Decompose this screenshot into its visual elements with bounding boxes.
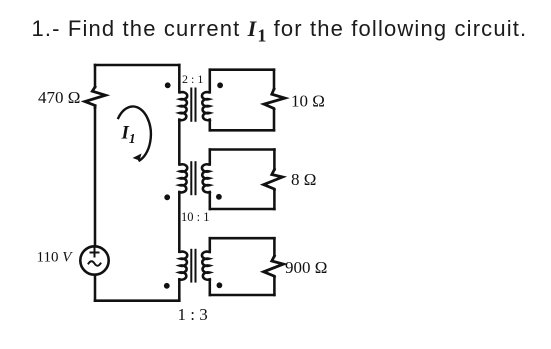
wire: middle bus T3 bottom lead [178,279,181,300]
wire: loop2 bottom [210,208,275,211]
wire: loop2 secondary top lead [209,150,212,165]
svg-text:8 Ω: 8 Ω [291,170,316,189]
polarity dot T3 right [217,282,223,288]
svg-text:10 : 1: 10 : 1 [181,210,209,224]
polarity dot T3 left [164,283,170,289]
svg-text:1 : 3: 1 : 3 [178,305,208,324]
wire: top of left loop [95,64,179,67]
wire: left side bottom segment [94,275,97,301]
resistor 10Ω (zigzag) [264,89,285,109]
wire: loop3 right top segment [273,238,276,256]
svg-text:2 : 1: 2 : 1 [182,72,203,86]
polarity dot T1 left [165,82,171,88]
transformer 2:1 secondary winding [202,92,210,120]
wire: middle bus T1 top lead [178,65,181,92]
resistor 8Ω (zigzag) [264,170,283,190]
wire: loop1 bottom [210,129,274,132]
wire: left side top segment [94,65,97,87]
wire: loop1 right bottom segment [273,109,276,130]
svg-text:900 Ω: 900 Ω [285,258,327,277]
wire: loop2 right bottom segment [273,189,276,209]
wire: middle bus between T1 and T2 [178,120,181,165]
transformer 2:1 core [191,89,195,121]
wire: loop1 secondary top lead [209,70,212,93]
wire: loop1 secondary bottom lead [209,120,212,131]
svg-text:110 V: 110 V [37,250,74,266]
source 110V circle [80,246,108,274]
wire: loop3 secondary top lead [209,238,212,252]
transformer 10:1 secondary winding [202,164,210,192]
transformer 10:1 primary winding [179,164,187,192]
wire: loop2 secondary bottom lead [209,192,212,209]
wire: loop3 secondary bottom lead [209,279,212,295]
source sine symbol [89,261,101,266]
wire: loop3 right bottom segment [273,277,276,296]
transformer 1:3 secondary winding [202,252,210,280]
wire: loop1 top [210,68,274,71]
svg-text:10 Ω: 10 Ω [291,92,325,111]
wire: left side middle segment [94,108,97,246]
wire: bottom of left loop [95,299,179,302]
wire: loop3 top [210,237,275,240]
wire: loop2 top [210,148,275,151]
resistor 470Ω (zigzag) [85,87,106,108]
polarity dot T1 right [217,82,223,88]
title [32,16,528,46]
source plus sign [91,249,99,257]
transformer 1:3 primary winding [179,252,187,280]
polarity dot T2 right [216,194,222,200]
transformer 10:1 core [191,162,195,194]
wire: loop3 bottom [210,294,275,297]
transformer 2:1 primary winding [179,92,187,120]
wire: loop1 right top segment [273,70,276,89]
transformer 1:3 core [191,250,195,282]
svg-text:I1: I1 [121,123,136,147]
current arrow I1 [118,106,151,160]
svg-text:470 Ω: 470 Ω [38,88,80,107]
wire: loop2 right top segment [273,150,276,170]
polarity dot T2 left [164,194,170,200]
resistor 900Ω (zigzag) [264,256,284,277]
wire: middle bus between T2 and T3 [178,192,181,252]
